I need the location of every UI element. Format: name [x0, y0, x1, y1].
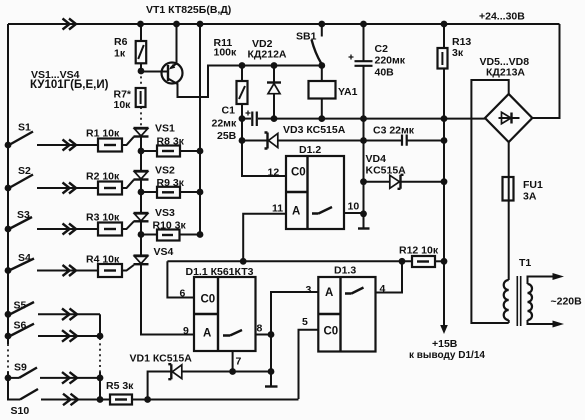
- wire row S2 with connector chevron: [37, 183, 98, 194]
- zener diode VD3 КС515А: [265, 124, 346, 149]
- svg-text:VD4: VD4: [366, 153, 387, 165]
- junction VS3 cathode node: [138, 231, 145, 238]
- wire D1.1 pin 7: [233, 351, 242, 372]
- svg-text:R8 3к: R8 3к: [157, 136, 185, 148]
- svg-text:R5 3к: R5 3к: [106, 380, 134, 392]
- svg-text:VS2: VS2: [155, 165, 175, 177]
- svg-text:YA1: YA1: [338, 86, 358, 98]
- wire D1.2 pin 10 output: [344, 201, 364, 214]
- wire row S3 with connector chevron: [37, 224, 98, 235]
- thyristor VS1: [134, 123, 176, 152]
- svg-text:R2 10к: R2 10к: [86, 171, 120, 183]
- svg-text:R10 3к: R10 3к: [153, 220, 187, 232]
- svg-text:S4: S4: [18, 252, 31, 264]
- wire: zener line y=140.5: [239, 137, 448, 144]
- resistor R3 10к: [86, 212, 122, 236]
- analog switch D1.1: [186, 266, 256, 351]
- relay coil YA1: [309, 66, 358, 119]
- svg-text:D1.2: D1.2: [299, 144, 321, 156]
- wire row S4 with connector chevron: [37, 265, 98, 276]
- wire R4 to VS4 gate: [122, 265, 134, 271]
- wire row S6 with connector chevron: [38, 330, 100, 342]
- svg-text:T1: T1: [519, 257, 531, 269]
- wire D1.2 pin 11: [243, 203, 286, 262]
- svg-text:R6: R6: [114, 36, 128, 48]
- svg-text:C1: C1: [222, 105, 236, 117]
- wire: left vertical bus: [5, 24, 12, 400]
- svg-text:VD1 КС515А: VD1 КС515А: [130, 353, 193, 365]
- svg-text:~220В: ~220В: [551, 296, 583, 308]
- resistor R11 100к: [214, 37, 248, 119]
- resistor R5 3к: [106, 380, 299, 405]
- svg-text:9: 9: [183, 325, 189, 337]
- resistor R8 3к: [141, 136, 200, 157]
- junction VS2 cathode node: [138, 189, 145, 196]
- wire bridge + corner to +24V rail: [532, 24, 559, 118]
- wire: bottom bus y=261.3: [167, 258, 447, 265]
- svg-text:11: 11: [272, 203, 283, 215]
- junction node R6/R7/base: [138, 68, 145, 75]
- junction VS1 cathode node: [138, 148, 145, 155]
- svg-text:12: 12: [268, 167, 280, 179]
- svg-text:VS3: VS3: [155, 207, 175, 219]
- wire row S10 with connector chevron: [41, 394, 110, 406]
- svg-text:S3: S3: [17, 209, 30, 221]
- svg-text:22мк: 22мк: [212, 118, 237, 130]
- switch S5: [10, 300, 34, 315]
- svg-text:C0: C0: [324, 326, 339, 338]
- svg-text:+24...30В: +24...30В: [479, 11, 525, 23]
- wire bridge AC2 corner down: [508, 142, 510, 280]
- diode VD2 КД212А: [248, 38, 287, 119]
- svg-text:6: 6: [180, 288, 186, 300]
- svg-text:C3 22мк: C3 22мк: [373, 125, 415, 137]
- svg-text:40В: 40В: [375, 67, 395, 79]
- wire D1.1 pin 6 hook: [167, 261, 194, 299]
- diode bridge VD5...VD8 КД213А: [480, 56, 533, 142]
- svg-text:10к: 10к: [114, 99, 132, 111]
- svg-text:КД212А: КД212А: [248, 49, 287, 61]
- analog switch D1.2: [286, 144, 344, 229]
- ground symbol at pin 10: [358, 214, 370, 229]
- switch S10: [8, 378, 38, 417]
- svg-text:8: 8: [257, 323, 263, 335]
- switch S1: [9, 122, 33, 146]
- svg-text:VT1 КТ825Б(В,Д): VT1 КТ825Б(В,Д): [146, 4, 231, 16]
- wire pin8 riser to D1.3 pin 3: [268, 284, 319, 375]
- switch S4: [9, 252, 34, 271]
- svg-text:VD3 КС515А: VD3 КС515А: [283, 124, 346, 136]
- svg-text:S10: S10: [11, 405, 30, 417]
- zener diode VD4 КС515А: [366, 153, 407, 189]
- svg-text:R9 3к: R9 3к: [157, 177, 185, 189]
- transformer T1: [504, 257, 582, 328]
- ground symbol below pin 8 node: [265, 372, 278, 387]
- wire D1.3 pin 5: [299, 316, 319, 399]
- svg-text:S6: S6: [14, 320, 27, 332]
- wire VS4 cathode down to D1.1 pin 9: [141, 264, 194, 334]
- svg-text:+15В: +15В: [432, 338, 458, 350]
- wire: vertical rail from +24V to R8/R9/R10: [197, 24, 204, 238]
- junction pin 7 node: [229, 368, 236, 375]
- resistor R13 3к: [438, 24, 472, 261]
- transistor VT1 КТ825Б(В,Д): [141, 4, 322, 97]
- svg-text:VS4: VS4: [154, 246, 174, 258]
- svg-text:S9: S9: [14, 362, 27, 374]
- svg-text:220мк: 220мк: [375, 55, 406, 67]
- wire: right collector bus of S5-S10: [97, 314, 104, 403]
- svg-text:КУ101Г(Б,Е,И): КУ101Г(Б,Е,И): [30, 79, 109, 91]
- wire: main horizontal rail y=118.6: [239, 115, 485, 122]
- resistor R6 1к: [114, 24, 146, 71]
- svg-text:10: 10: [348, 201, 360, 213]
- svg-text:C2: C2: [375, 43, 389, 55]
- switch S9: [9, 362, 37, 378]
- wire row S1 with connector chevron: [37, 140, 98, 151]
- resistor R4 10к: [86, 254, 122, 278]
- switch S3: [9, 209, 32, 229]
- svg-text:к выводу D1/14: к выводу D1/14: [409, 350, 485, 361]
- svg-text:VS1: VS1: [155, 123, 175, 135]
- svg-text:FU1: FU1: [523, 179, 543, 191]
- svg-text:S1: S1: [18, 122, 31, 134]
- svg-text:100к: 100к: [214, 47, 238, 59]
- svg-text:S5: S5: [14, 300, 27, 312]
- capacitor C2 220мк 40В: [349, 24, 406, 79]
- capacitor C1 22мк 25В: [212, 105, 275, 143]
- capacitor C3 22мк: [373, 125, 415, 146]
- connector chevron on top rail: [63, 19, 77, 30]
- svg-text:3А: 3А: [523, 191, 537, 203]
- resistor R9 3к: [141, 177, 200, 198]
- svg-text:1к: 1к: [114, 48, 126, 60]
- wire +15В arrow output: [409, 261, 485, 361]
- resistor R2 10к: [86, 171, 122, 195]
- svg-text:7: 7: [236, 356, 242, 368]
- wire: 0V vertical rail (C2 to pin 10): [360, 66, 367, 217]
- svg-text:S2: S2: [18, 165, 31, 177]
- resistor R10 3к: [141, 220, 200, 241]
- wire R1 to VS1 gate: [122, 137, 134, 145]
- svg-text:R1 10к: R1 10к: [86, 128, 120, 140]
- fuse FU1 3А: [503, 177, 543, 203]
- svg-text:D1.3: D1.3: [334, 265, 356, 277]
- svg-text:R12 10к: R12 10к: [399, 245, 439, 257]
- svg-text:KC515A: KC515A: [366, 165, 407, 177]
- wire: VD4 line y=181.7: [364, 181, 445, 183]
- svg-text:D1.1 К561КТ3: D1.1 К561КТ3: [186, 266, 254, 278]
- svg-text:C0: C0: [201, 294, 216, 306]
- svg-text:A: A: [203, 328, 211, 340]
- pushbutton SB1: [296, 24, 322, 64]
- analog switch D1.3: [318, 265, 375, 352]
- resistor R1 10к: [86, 128, 122, 152]
- thyristor VS2: [134, 151, 176, 192]
- resistor R7* 10к: [114, 71, 146, 128]
- wire D1.1 pin 8 output: [256, 323, 272, 335]
- switch S2: [9, 165, 33, 188]
- svg-text:25В: 25В: [217, 130, 237, 142]
- junction dots on collector rail: [239, 62, 326, 69]
- wire D1.3 pin 4 output: [376, 261, 403, 295]
- thyristor VS3: [134, 192, 176, 235]
- wire row S9 with connector chevron: [40, 372, 100, 384]
- svg-text:C0: C0: [291, 167, 306, 179]
- svg-text:A: A: [292, 206, 300, 218]
- svg-text:4: 4: [380, 283, 386, 295]
- wire bridge AC1 corner to transformer: [471, 80, 508, 323]
- switch S6: [10, 320, 34, 337]
- svg-text:КД213А: КД213А: [486, 67, 525, 79]
- resistor R12 10к: [399, 245, 444, 268]
- wire R2 to VS2 gate: [122, 180, 134, 188]
- svg-text:3: 3: [306, 284, 312, 296]
- wire: top +24V rail: [8, 19, 560, 30]
- thyristor VS4: [134, 235, 174, 265]
- svg-text:R3 10к: R3 10к: [86, 212, 120, 224]
- svg-text:5: 5: [302, 316, 308, 328]
- zener diode VD1 КС515А: [130, 353, 272, 400]
- junction dots on top rail: [137, 21, 144, 28]
- wire R3 to VS3 gate: [122, 221, 134, 229]
- svg-text:R4 10к: R4 10к: [86, 254, 120, 266]
- wire: R11 bottom node down to D1.2 pin 12: [242, 119, 286, 176]
- svg-text:3к: 3к: [452, 47, 464, 59]
- group label VS1...VS4 КУ101Г(Б,Е,И): [30, 69, 109, 91]
- svg-text:SB1: SB1: [296, 31, 317, 43]
- wire row S5 with connector chevron: [38, 309, 100, 321]
- svg-text:A: A: [325, 287, 333, 299]
